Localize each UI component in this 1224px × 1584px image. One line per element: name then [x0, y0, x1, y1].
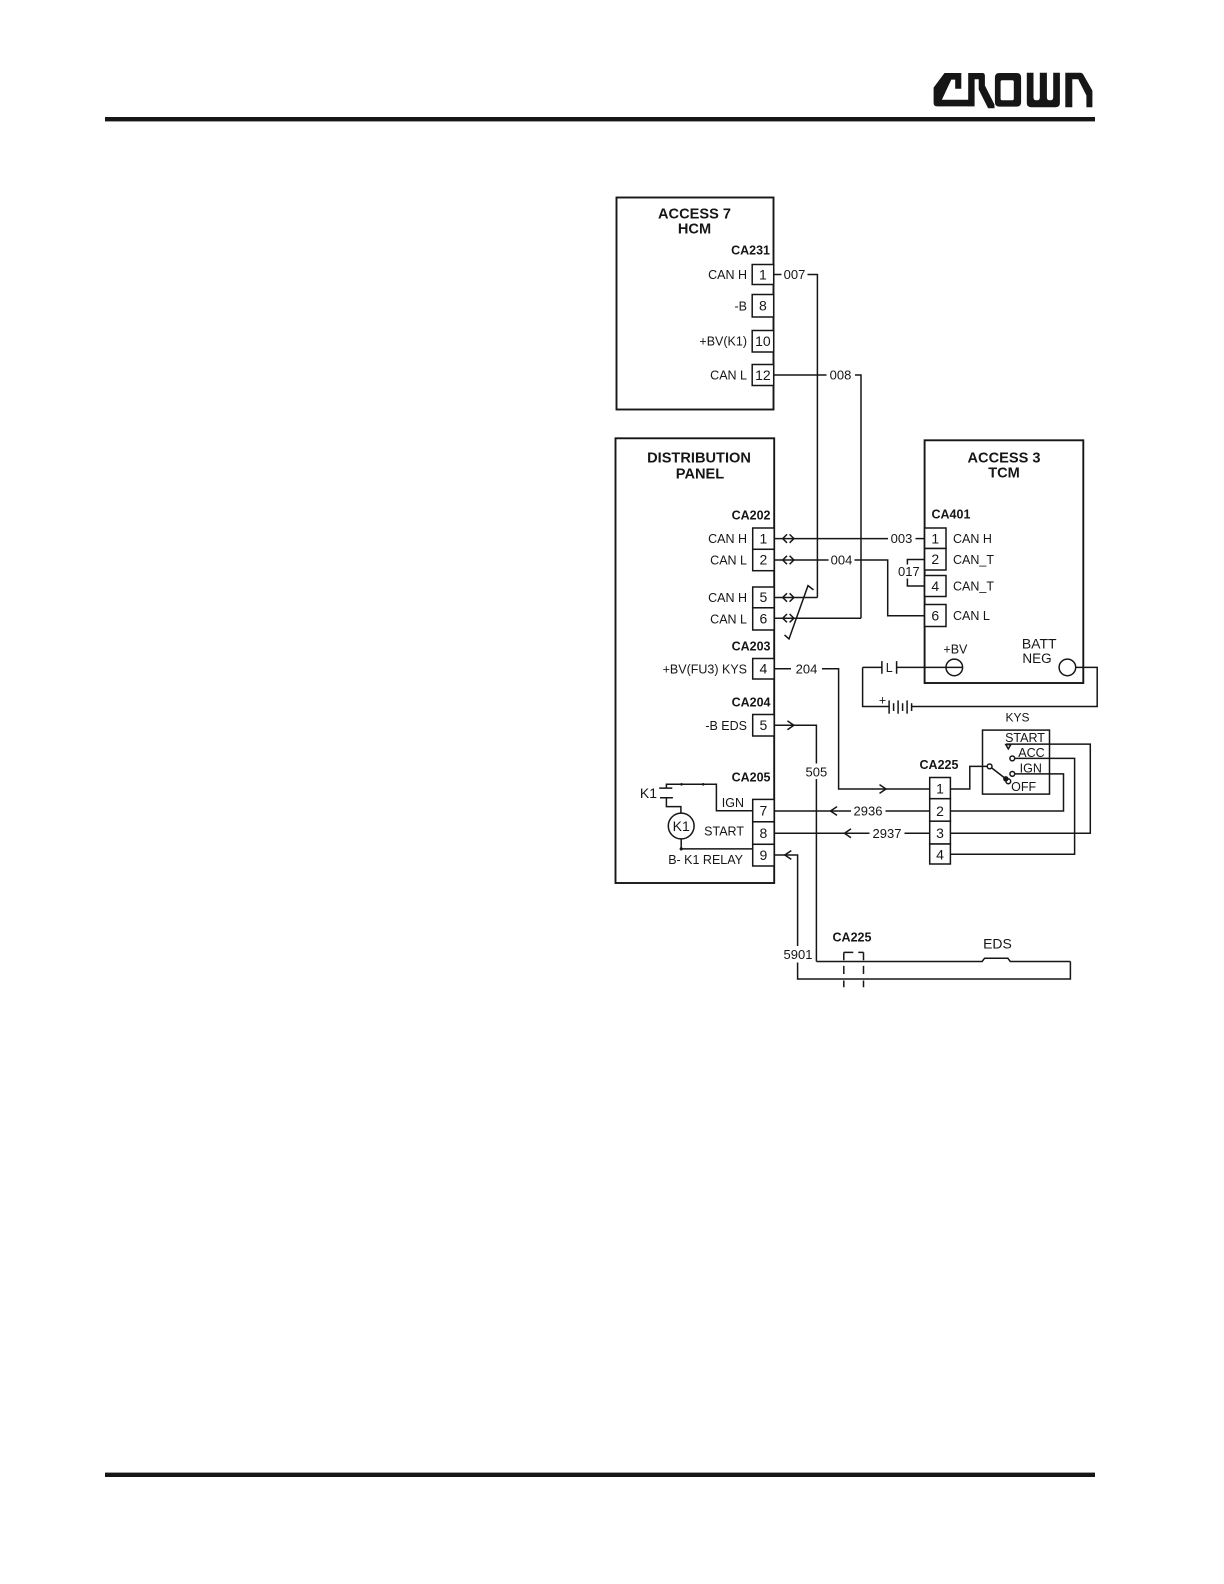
- svg-text:5: 5: [760, 717, 768, 733]
- svg-text:START: START: [1005, 731, 1045, 745]
- wire 017 loop: [907, 560, 924, 565]
- switch lever: [987, 764, 992, 769]
- svg-text:CAN H: CAN H: [708, 532, 747, 546]
- svg-text:2: 2: [936, 803, 944, 819]
- wire 003: [774, 538, 888, 540]
- svg-text:NEG: NEG: [1022, 651, 1051, 666]
- box ACCESS 3 TCM: [925, 440, 1084, 683]
- svg-text:003: 003: [891, 531, 913, 546]
- CA231 pin 1: [752, 265, 774, 285]
- svg-text:10: 10: [755, 333, 771, 349]
- svg-text:CA204: CA204: [732, 696, 771, 710]
- CA225 pin 1: [930, 778, 951, 799]
- svg-text:+BV(FU3) KYS: +BV(FU3) KYS: [663, 662, 747, 676]
- svg-text:4: 4: [936, 846, 944, 862]
- svg-text:5901: 5901: [784, 947, 813, 962]
- svg-text:1: 1: [760, 530, 768, 546]
- wire 007: [774, 274, 782, 276]
- CA205 pin 7: [753, 799, 775, 821]
- svg-text:EDS: EDS: [983, 935, 1012, 951]
- svg-text:B- K1 RELAY: B- K1 RELAY: [668, 853, 743, 867]
- svg-text:CA225: CA225: [920, 758, 959, 772]
- svg-text:-B EDS: -B EDS: [705, 719, 747, 733]
- wire 5901: [774, 855, 797, 946]
- svg-text:-B: -B: [735, 299, 748, 313]
- svg-text:CAN_T: CAN_T: [953, 580, 994, 594]
- svg-text:IGN: IGN: [722, 796, 744, 810]
- svg-text:8: 8: [760, 825, 768, 841]
- CA225 pin 3: [930, 821, 951, 844]
- box ACCESS 7 HCM: [617, 198, 774, 410]
- CA231 pin 12: [752, 365, 774, 386]
- svg-text:CA205: CA205: [732, 771, 771, 785]
- CA204 pin 5: [753, 715, 775, 737]
- svg-text:CAN L: CAN L: [953, 609, 990, 623]
- svg-text:CAN H: CAN H: [708, 268, 747, 282]
- svg-text:2: 2: [760, 552, 768, 568]
- svg-text:4: 4: [931, 578, 939, 594]
- wire CA202 pin5: [774, 597, 817, 599]
- svg-text:008: 008: [830, 368, 852, 383]
- common wire to CA225 pin1: [950, 766, 987, 789]
- svg-text:+BV(K1): +BV(K1): [699, 335, 747, 349]
- CA401 pin 4: [925, 576, 946, 597]
- svg-text:L: L: [886, 661, 893, 675]
- relay coil K1: [668, 813, 694, 839]
- CA205 pin 9: [753, 844, 775, 866]
- svg-text:204: 204: [796, 661, 818, 676]
- CA231 pin 10: [752, 331, 774, 353]
- svg-text:CAN L: CAN L: [710, 612, 747, 626]
- svg-text:ACCESS 3: ACCESS 3: [968, 451, 1041, 467]
- CA205 pin 8: [753, 822, 775, 845]
- svg-text:5: 5: [760, 589, 768, 605]
- svg-text:6: 6: [931, 607, 939, 623]
- svg-text:CA203: CA203: [732, 639, 771, 653]
- wire 505 / -B EDS: [774, 725, 816, 763]
- wire 2936: [774, 810, 851, 812]
- svg-text:2: 2: [931, 551, 939, 567]
- svg-text:+BV: +BV: [943, 643, 968, 657]
- twisted pair marker: [785, 586, 814, 639]
- CA225 pin 2: [930, 799, 951, 822]
- svg-text:8: 8: [759, 298, 767, 314]
- svg-text:1: 1: [931, 530, 939, 546]
- svg-text:CAN H: CAN H: [953, 532, 992, 546]
- svg-text:KYS: KYS: [1005, 711, 1029, 725]
- CA202 pin 5: [753, 587, 775, 608]
- svg-text:1: 1: [759, 266, 767, 282]
- CA202 pin 1: [753, 528, 775, 549]
- svg-text:505: 505: [806, 764, 828, 779]
- CA202 pin 2: [753, 549, 775, 570]
- svg-text:1: 1: [936, 781, 944, 797]
- footer rule: [105, 1473, 1095, 1477]
- svg-text:+: +: [879, 694, 886, 708]
- header rule: [105, 117, 1095, 121]
- svg-text:004: 004: [831, 553, 853, 568]
- svg-text:ACCESS 7: ACCESS 7: [658, 207, 731, 223]
- svg-text:3: 3: [936, 825, 944, 841]
- svg-text:OFF: OFF: [1011, 780, 1036, 794]
- svg-text:4: 4: [760, 661, 768, 677]
- svg-text:6: 6: [760, 611, 768, 627]
- svg-text:CA231: CA231: [731, 244, 770, 258]
- svg-text:017: 017: [898, 564, 920, 579]
- CA401 pin 6: [925, 605, 946, 627]
- CA202 pin 6: [753, 608, 775, 630]
- svg-text:K1: K1: [640, 785, 657, 801]
- svg-text:CAN L: CAN L: [710, 369, 747, 383]
- box DISTRIBUTION PANEL: [616, 438, 775, 883]
- svg-text:BATT: BATT: [1022, 636, 1057, 652]
- svg-text:CAN H: CAN H: [708, 591, 747, 605]
- CROWN logo: [934, 73, 1093, 109]
- svg-text:007: 007: [784, 267, 806, 282]
- svg-text:CA225: CA225: [833, 931, 872, 945]
- svg-text:PANEL: PANEL: [676, 467, 724, 483]
- CA225 pin 4: [930, 844, 951, 864]
- svg-text:2937: 2937: [873, 826, 902, 841]
- svg-text:K1: K1: [673, 818, 690, 834]
- wire CA202 pin6: [774, 617, 861, 619]
- svg-text:CAN_T: CAN_T: [953, 553, 994, 567]
- svg-text:9: 9: [760, 847, 768, 863]
- battery: [863, 667, 890, 706]
- CA203 pin 4: [753, 659, 775, 680]
- svg-text:HCM: HCM: [678, 222, 711, 238]
- CA231 pin 8: [752, 295, 774, 318]
- svg-text:DISTRIBUTION: DISTRIBUTION: [647, 451, 751, 467]
- wire 004: [774, 559, 828, 561]
- CA401 pin 2: [925, 549, 946, 571]
- svg-text:CAN L: CAN L: [710, 553, 747, 567]
- svg-text:7: 7: [760, 803, 768, 819]
- wire 204: [774, 668, 791, 670]
- wire 2937: [774, 832, 869, 834]
- svg-text:12: 12: [755, 367, 771, 383]
- wire 008: [774, 374, 827, 376]
- svg-text:CA202: CA202: [732, 509, 771, 523]
- start marker: [1006, 745, 1011, 749]
- svg-text:TCM: TCM: [988, 466, 1020, 482]
- svg-text:2936: 2936: [854, 804, 883, 819]
- wire with EDS bump: [816, 958, 1070, 961]
- START wire: [950, 744, 1090, 833]
- fuse L: [863, 661, 897, 674]
- bidirectional arrows on CA202 pins: [783, 534, 794, 622]
- CA401 pin 1: [925, 528, 946, 549]
- svg-text:CA401: CA401: [932, 508, 971, 522]
- svg-text:START: START: [704, 825, 744, 839]
